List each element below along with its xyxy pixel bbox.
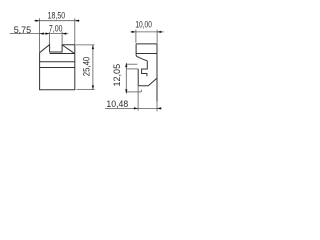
svg-text:10,00: 10,00 bbox=[135, 20, 152, 30]
svg-text:5,75: 5,75 bbox=[14, 25, 32, 35]
svg-text:10,48: 10,48 bbox=[106, 99, 128, 109]
svg-text:18,50: 18,50 bbox=[48, 11, 66, 21]
svg-text:7,00: 7,00 bbox=[49, 23, 63, 33]
svg-text:12,05: 12,05 bbox=[111, 64, 122, 87]
svg-text:25,40: 25,40 bbox=[81, 57, 92, 76]
